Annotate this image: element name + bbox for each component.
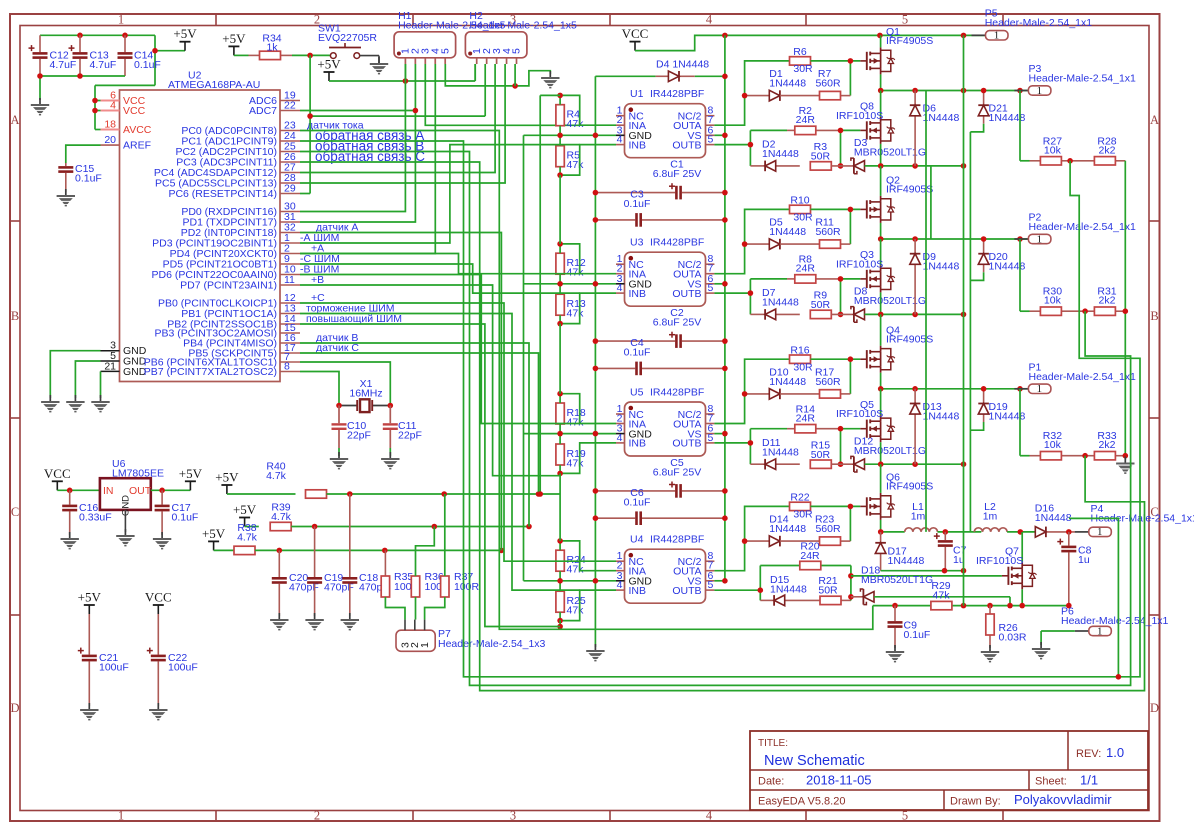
resistor R13 47k xyxy=(556,294,586,320)
resistor R9 50R xyxy=(810,290,831,319)
pin 5 GND xyxy=(101,350,147,368)
regulator U6 LM7805EE xyxy=(100,458,164,516)
node C8 junction xyxy=(1066,529,1072,535)
node VS junction xyxy=(722,281,728,287)
node P5 vertical crossing xyxy=(961,88,967,94)
wire H2 pin5 gnd xyxy=(514,64,516,86)
wire R divider chain xyxy=(524,394,617,474)
pin 18 AVCC xyxy=(101,119,152,137)
wire H1 pin1 to pin30 xyxy=(300,64,405,212)
svg-text:1: 1 xyxy=(419,642,431,648)
wire gate vertical block4 xyxy=(850,566,852,601)
wire +5V rail top-left xyxy=(40,35,185,85)
node OUTB junction xyxy=(748,290,754,296)
node R39 row junctions xyxy=(312,524,532,530)
svg-text:New Schematic: New Schematic xyxy=(764,753,865,769)
svg-text:560R: 560R xyxy=(815,78,841,90)
wire pin8 to crystal xyxy=(300,372,339,406)
svg-text:TITLE:: TITLE: xyxy=(758,738,788,749)
svg-text:+5V: +5V xyxy=(317,57,341,72)
wire R39 row xyxy=(291,526,529,528)
node C3 junctions xyxy=(593,217,728,223)
svg-text:30R: 30R xyxy=(793,509,813,521)
wire +5V feeder vertical xyxy=(540,95,560,494)
wire H1 pin3 to U1 INA xyxy=(425,64,579,125)
node OUTA branch xyxy=(742,241,748,247)
node H2 pin5 gnd junction xyxy=(512,83,518,89)
svg-text:IR4428PBF: IR4428PBF xyxy=(650,387,704,399)
wire feedback B xyxy=(300,152,1131,686)
wire GND pin 5 xyxy=(75,361,100,398)
pin 3 GND xyxy=(101,340,147,358)
wire sensor B pin16 xyxy=(300,343,529,527)
svg-text:OUT: OUT xyxy=(129,485,152,497)
node OUTB junction xyxy=(748,440,754,446)
ground below C11 xyxy=(381,452,399,469)
svg-text:0.1uF: 0.1uF xyxy=(624,347,651,359)
wire PWM pin9 to U3 INB xyxy=(300,264,580,293)
power +5V at R38 xyxy=(202,526,234,551)
svg-text:24R: 24R xyxy=(796,263,816,275)
diode D1 1N4448 xyxy=(745,68,807,101)
pin 22 ADC7 xyxy=(249,100,300,117)
svg-text:OUTB: OUTB xyxy=(672,438,701,450)
ground below C20 xyxy=(270,613,288,630)
node C17 junction xyxy=(159,488,165,494)
resistor R34 xyxy=(249,33,293,60)
ground below C17 xyxy=(153,532,171,549)
svg-text:B: B xyxy=(11,309,19,323)
wire R chain between blocks xyxy=(559,175,561,541)
resistor R38 xyxy=(234,522,258,555)
svg-text:U3: U3 xyxy=(630,237,644,249)
wire PWM pin2 to U3 INA xyxy=(300,254,580,274)
node bottom rail junctions xyxy=(878,312,966,318)
diode D4 1N4448 xyxy=(595,59,725,82)
svg-text:4: 4 xyxy=(617,134,623,146)
svg-text:100uF: 100uF xyxy=(99,662,129,674)
pin 14 PB2 xyxy=(167,313,402,331)
resistor R22 30R xyxy=(790,492,814,521)
wire OUTB to gate network xyxy=(714,279,750,315)
node R divider junctions xyxy=(557,538,598,623)
capacitor C19 xyxy=(307,527,354,617)
svg-text:11: 11 xyxy=(284,274,295,286)
wire P4 bus branch xyxy=(1069,518,1118,676)
svg-text:47k: 47k xyxy=(567,267,585,279)
svg-text:VCC: VCC xyxy=(622,26,649,41)
wire OUTB to gate network xyxy=(714,130,750,166)
svg-text:INB: INB xyxy=(629,585,647,597)
svg-text:+5V: +5V xyxy=(179,466,203,481)
svg-text:4: 4 xyxy=(110,100,116,112)
power VCC main rail xyxy=(622,26,649,51)
connector P7 Header-Male-2.54_1x3 xyxy=(396,620,546,652)
power VCC at U6 input xyxy=(44,466,71,491)
svg-text:47k: 47k xyxy=(567,118,585,130)
wire feedback A xyxy=(300,141,1140,677)
svg-text:16MHz: 16MHz xyxy=(349,388,382,400)
svg-text:1: 1 xyxy=(1037,383,1043,395)
svg-text:1N4448: 1N4448 xyxy=(1035,512,1072,524)
resistor R21 50R xyxy=(818,575,851,605)
wire phase mid rail xyxy=(880,238,1029,240)
svg-text:1N4448: 1N4448 xyxy=(769,523,806,535)
resistor R8 24R xyxy=(750,254,840,283)
svg-text:560R: 560R xyxy=(815,376,841,388)
resistor R28 2k2 xyxy=(1070,135,1125,165)
power +5V at C21 xyxy=(78,590,102,615)
wire H1 pin4 down xyxy=(300,64,435,254)
wire R36 top xyxy=(416,527,435,577)
svg-text:R16: R16 xyxy=(790,345,809,357)
wire diode chain vertical xyxy=(969,132,971,532)
node mid rail junctions xyxy=(878,386,1023,392)
node divider junction xyxy=(1082,308,1088,314)
svg-text:4.7k: 4.7k xyxy=(266,470,287,482)
wire phase bottom rail xyxy=(865,463,964,465)
svg-text:+5V: +5V xyxy=(202,526,226,541)
wire gnd row feeder vertical xyxy=(523,135,525,581)
diode D21 1N4448 xyxy=(978,88,1025,125)
node gate P junction xyxy=(848,356,854,362)
pin 13 PB1 xyxy=(181,302,394,320)
node VCC rail junctions xyxy=(722,33,966,39)
capacitor C11 xyxy=(383,406,422,457)
svg-text:0.1uF: 0.1uF xyxy=(624,198,651,210)
svg-text:24R: 24R xyxy=(800,550,820,562)
wire feedback C xyxy=(300,162,1145,691)
wire gate N vertical xyxy=(841,130,861,166)
resistor R39 xyxy=(270,502,291,531)
diode D11 1N4448 xyxy=(750,437,799,470)
driver IC U4 IR4428PBF xyxy=(616,534,714,604)
node R25 bottom xyxy=(557,624,563,630)
wire row B Q7 gate xyxy=(851,575,1002,577)
node VS junction xyxy=(722,133,728,139)
resistor R27 10k xyxy=(1030,135,1071,165)
svg-text:R10: R10 xyxy=(790,195,809,207)
connector P2 Header-Male-2.54_1x1 xyxy=(1014,212,1136,246)
diode D9 1N4448 xyxy=(910,239,960,314)
resistor R17 560R xyxy=(780,367,851,399)
ground MCU pin5 xyxy=(66,395,84,412)
resistor R2 24R xyxy=(750,105,840,134)
svg-text:EasyEDA V5.8.20: EasyEDA V5.8.20 xyxy=(758,796,845,808)
transistor Q8 IRF1010S xyxy=(836,91,895,166)
svg-text:1k: 1k xyxy=(266,42,278,54)
capacitor C9 0.1uF xyxy=(888,606,931,648)
ground at SW1 xyxy=(370,57,388,74)
node VCC pin junctions xyxy=(92,98,98,114)
pin 16 PB4 xyxy=(183,332,358,350)
pin 8 PB7 xyxy=(144,361,300,378)
transistor Q5 IRF1010S xyxy=(836,389,895,464)
wire divider tap xyxy=(1020,91,1030,161)
resistor R36 xyxy=(411,571,450,597)
wire L1 to L2 xyxy=(938,531,982,533)
resistor R31 2k2 xyxy=(1085,286,1125,316)
pin 28 PC5 xyxy=(155,172,300,189)
wire H1 pin5 ground run xyxy=(445,64,550,86)
power +5V at U6 output xyxy=(179,466,203,491)
pin 4 VCC xyxy=(101,100,146,118)
svg-text:1N4448: 1N4448 xyxy=(762,297,799,309)
svg-text:47k: 47k xyxy=(567,605,585,617)
svg-text:4.7uF: 4.7uF xyxy=(90,59,117,71)
svg-text:1: 1 xyxy=(1097,625,1103,637)
power VCC at C22 xyxy=(145,590,172,615)
svg-text:100uF: 100uF xyxy=(168,662,198,674)
svg-text:Header-Male-2.54_1x5: Header-Male-2.54_1x5 xyxy=(469,20,577,32)
capacitor C12 xyxy=(29,35,77,76)
diode D6 1N4448 xyxy=(910,91,960,166)
svg-text:4: 4 xyxy=(617,579,623,591)
wire VS to rail xyxy=(714,433,725,435)
resistor R26 0.03R xyxy=(986,606,1027,648)
svg-text:24R: 24R xyxy=(796,114,816,126)
svg-text:REV:: REV: xyxy=(1076,748,1101,760)
svg-text:29: 29 xyxy=(284,183,296,195)
node OUTA branch xyxy=(742,93,748,99)
wire OUTA to gate network xyxy=(714,61,789,125)
schottky D3 MBR0520LT1G xyxy=(831,137,926,174)
resistor R10 30R xyxy=(790,195,814,224)
wire R divider chain xyxy=(524,541,617,621)
resistor R14 24R xyxy=(750,404,840,433)
svg-text:IR4428PBF: IR4428PBF xyxy=(650,237,704,249)
pin 29 PC6 xyxy=(168,183,300,200)
node D4 cathode junction xyxy=(722,74,728,80)
resistor R29 47k xyxy=(931,580,952,610)
connector P1 Header-Male-2.54_1x1 xyxy=(1014,362,1136,396)
svg-text:5: 5 xyxy=(708,432,714,444)
capacitor C15 xyxy=(58,163,102,192)
svg-text:47k: 47k xyxy=(567,564,585,576)
svg-text:MBR0520LT1G: MBR0520LT1G xyxy=(861,574,933,586)
pin 17 PB5 xyxy=(188,342,359,360)
wire VS to rail xyxy=(714,283,725,285)
svg-text:0.1uF: 0.1uF xyxy=(624,496,651,508)
node bottom rail junctions xyxy=(878,461,966,467)
svg-text:100R: 100R xyxy=(454,581,480,593)
node row A junctions xyxy=(942,568,967,574)
pin 27 PC4 xyxy=(154,162,300,179)
connector P5 Header-Male-2.54_1x1 xyxy=(972,8,1093,42)
svg-text:5: 5 xyxy=(708,282,714,294)
svg-text:VCC: VCC xyxy=(145,590,172,605)
ground below C18 xyxy=(341,613,359,630)
wire H1 pin1 +5V down xyxy=(404,64,406,81)
ground below C16 xyxy=(61,532,79,549)
switch SW1 EVQ22705R xyxy=(318,23,377,59)
svg-text:0.1uF: 0.1uF xyxy=(904,629,931,641)
node OUTB junction xyxy=(748,142,754,148)
diode D14 1N4448 xyxy=(745,514,807,547)
wire 30R to gate xyxy=(811,506,861,541)
wire GND pin 21 xyxy=(100,371,102,398)
svg-text:OUTB: OUTB xyxy=(672,585,701,597)
svg-text:R22: R22 xyxy=(790,492,809,504)
node OUTA branch xyxy=(742,391,748,397)
svg-text:5: 5 xyxy=(902,13,908,27)
wire R divider chain xyxy=(524,95,617,175)
wire H2 pin4 to pin28 xyxy=(300,64,505,183)
resistor R40 xyxy=(266,461,326,499)
pin 23 PC0 xyxy=(181,119,363,137)
wire bottom shunt rail xyxy=(873,605,1069,607)
resistor R15 50R xyxy=(810,440,831,469)
node C16 junction xyxy=(67,488,73,494)
node gate N junction xyxy=(838,128,844,169)
resistor R12 47k xyxy=(556,253,586,279)
transistor Q6 IRF4905S xyxy=(860,464,933,532)
svg-text:B: B xyxy=(1150,309,1158,323)
wire P5 vertical xyxy=(963,35,965,605)
ground below R33 xyxy=(1116,457,1134,474)
transistor Q7 IRF1010S xyxy=(976,532,1037,606)
diode D19 1N4448 xyxy=(978,386,1025,423)
resistor R18 47k xyxy=(556,403,586,429)
node cap rail junctions xyxy=(77,33,158,54)
driver IC U5 IR4428PBF xyxy=(616,387,714,457)
svg-text:IRF1010S: IRF1010S xyxy=(836,258,883,270)
wire D20 down-chain xyxy=(970,272,983,280)
svg-text:30R: 30R xyxy=(793,362,813,374)
svg-text:2k2: 2k2 xyxy=(1099,144,1116,156)
capacitor C18 xyxy=(342,494,388,616)
svg-text:U4: U4 xyxy=(630,534,644,546)
schottky D12 MBR0520LT1G xyxy=(831,436,926,473)
power +5V at R40 xyxy=(215,470,295,495)
wire 30R to gate xyxy=(811,61,861,96)
svg-text:1N4448: 1N4448 xyxy=(769,78,806,90)
svg-text:2k2: 2k2 xyxy=(1099,295,1116,307)
svg-text:1: 1 xyxy=(118,13,124,27)
connector P4 Header-Male-2.54_1x1 xyxy=(1075,503,1194,538)
svg-text:Header-Male-2.54_1x1: Header-Male-2.54_1x1 xyxy=(1029,371,1137,383)
svg-text:1.0: 1.0 xyxy=(1106,745,1124,760)
wire R40 row xyxy=(327,493,561,495)
wire AREF to C15 xyxy=(66,145,101,163)
resistor R5 47k xyxy=(556,146,584,172)
resistor R33 2k2 xyxy=(1085,430,1125,460)
svg-text:4: 4 xyxy=(617,432,623,444)
svg-text:47k: 47k xyxy=(567,458,585,470)
capacitor C6 0.1uF xyxy=(595,487,725,525)
svg-text:30R: 30R xyxy=(793,63,813,75)
svg-text:Header-Male-2.54_1x3: Header-Male-2.54_1x3 xyxy=(438,638,546,650)
wire VCC to top rail xyxy=(635,35,986,50)
svg-text:A: A xyxy=(1150,113,1159,127)
resistor R4 47k xyxy=(556,105,584,131)
ground below C10 xyxy=(330,452,348,469)
node C1 junctions xyxy=(593,190,728,196)
svg-text:A: A xyxy=(10,113,19,127)
svg-text:20: 20 xyxy=(104,134,116,146)
node crystal junctions xyxy=(336,403,393,409)
wire U6 OUT to +5V xyxy=(151,489,191,491)
svg-text:D: D xyxy=(1150,701,1159,715)
node U4 OUTB junction xyxy=(758,587,764,593)
node divider junction xyxy=(1067,158,1073,164)
node R divider junctions xyxy=(557,241,598,326)
ground below R26 xyxy=(981,645,999,662)
inductor L2 1m xyxy=(974,501,1007,532)
ground GND rail bottom xyxy=(586,644,604,661)
wire 30R to gate xyxy=(811,209,861,244)
capacitor C5 6.8uF xyxy=(595,457,725,498)
wire R35 to P7 pin3 xyxy=(385,597,405,620)
ground below C19 xyxy=(305,613,323,630)
wire U6 GND down xyxy=(124,510,126,532)
node gate N junction xyxy=(838,276,844,317)
svg-text:2k2: 2k2 xyxy=(1099,439,1116,451)
pin 25 PC2 xyxy=(175,139,424,158)
svg-text:1N4448: 1N4448 xyxy=(762,447,799,459)
svg-text:INB: INB xyxy=(629,438,647,450)
pin 20 AREF xyxy=(101,134,152,152)
connector P6 Header-Male-2.54_1x1 xyxy=(1061,606,1169,638)
svg-text:1N4448: 1N4448 xyxy=(923,112,960,124)
inductor L1 1m xyxy=(905,501,938,532)
resistor R24 47k xyxy=(556,550,586,576)
pin 21 GND xyxy=(101,360,147,378)
svg-text:21: 21 xyxy=(104,360,116,372)
svg-text:повышающий ШИМ: повышающий ШИМ xyxy=(306,313,402,325)
schottky D18 MBR0520LT1G xyxy=(851,565,933,605)
svg-text:PD7 (PCINT23AIN1): PD7 (PCINT23AIN1) xyxy=(180,279,277,291)
transistor Q1 IRF4905S xyxy=(860,26,933,90)
svg-text:R6: R6 xyxy=(793,46,807,58)
wire cap bank bottom rail xyxy=(40,76,125,100)
capacitor C22 xyxy=(147,614,198,706)
transistor Q4 IRF4905S xyxy=(860,314,933,388)
ground MCU pin3 xyxy=(41,395,59,412)
svg-text:0.03R: 0.03R xyxy=(999,632,1027,644)
capacitor C17 xyxy=(155,490,199,535)
pin 2 PD4 xyxy=(170,242,325,259)
svg-text:6.8uF 25V: 6.8uF 25V xyxy=(653,466,701,478)
wire PWM pin1 to U1 INB xyxy=(300,145,580,243)
svg-text:4: 4 xyxy=(706,13,713,27)
pin 30 PD0 xyxy=(181,201,300,218)
svg-text:24R: 24R xyxy=(796,413,816,425)
svg-text:1m: 1m xyxy=(911,511,926,523)
node gate P junction xyxy=(848,58,854,64)
svg-text:560R: 560R xyxy=(815,226,841,238)
svg-text:+5V: +5V xyxy=(78,590,102,605)
svg-text:1m: 1m xyxy=(983,511,998,523)
header H1 xyxy=(394,10,506,64)
wire OUTA to gate network xyxy=(714,359,789,423)
wire OUTA to gate network xyxy=(714,209,789,273)
svg-text:47k: 47k xyxy=(567,417,585,429)
diode D13 1N4448 xyxy=(910,389,960,464)
wire reset net vertical xyxy=(300,55,485,193)
node C5 junctions xyxy=(593,488,728,494)
ground below C9 xyxy=(886,645,904,662)
node +5V feeder xyxy=(537,491,543,497)
svg-text:AVCC: AVCC xyxy=(123,124,152,136)
wire OUTA to gate network xyxy=(714,506,789,570)
resistor R23 560R xyxy=(780,514,851,546)
wire GND pin 3 xyxy=(50,351,100,398)
ground below U6 xyxy=(116,529,134,546)
wire H2 pin3 to pin27 xyxy=(300,64,495,173)
pin 6 VCC xyxy=(101,90,146,108)
node C7 junction xyxy=(943,529,949,535)
